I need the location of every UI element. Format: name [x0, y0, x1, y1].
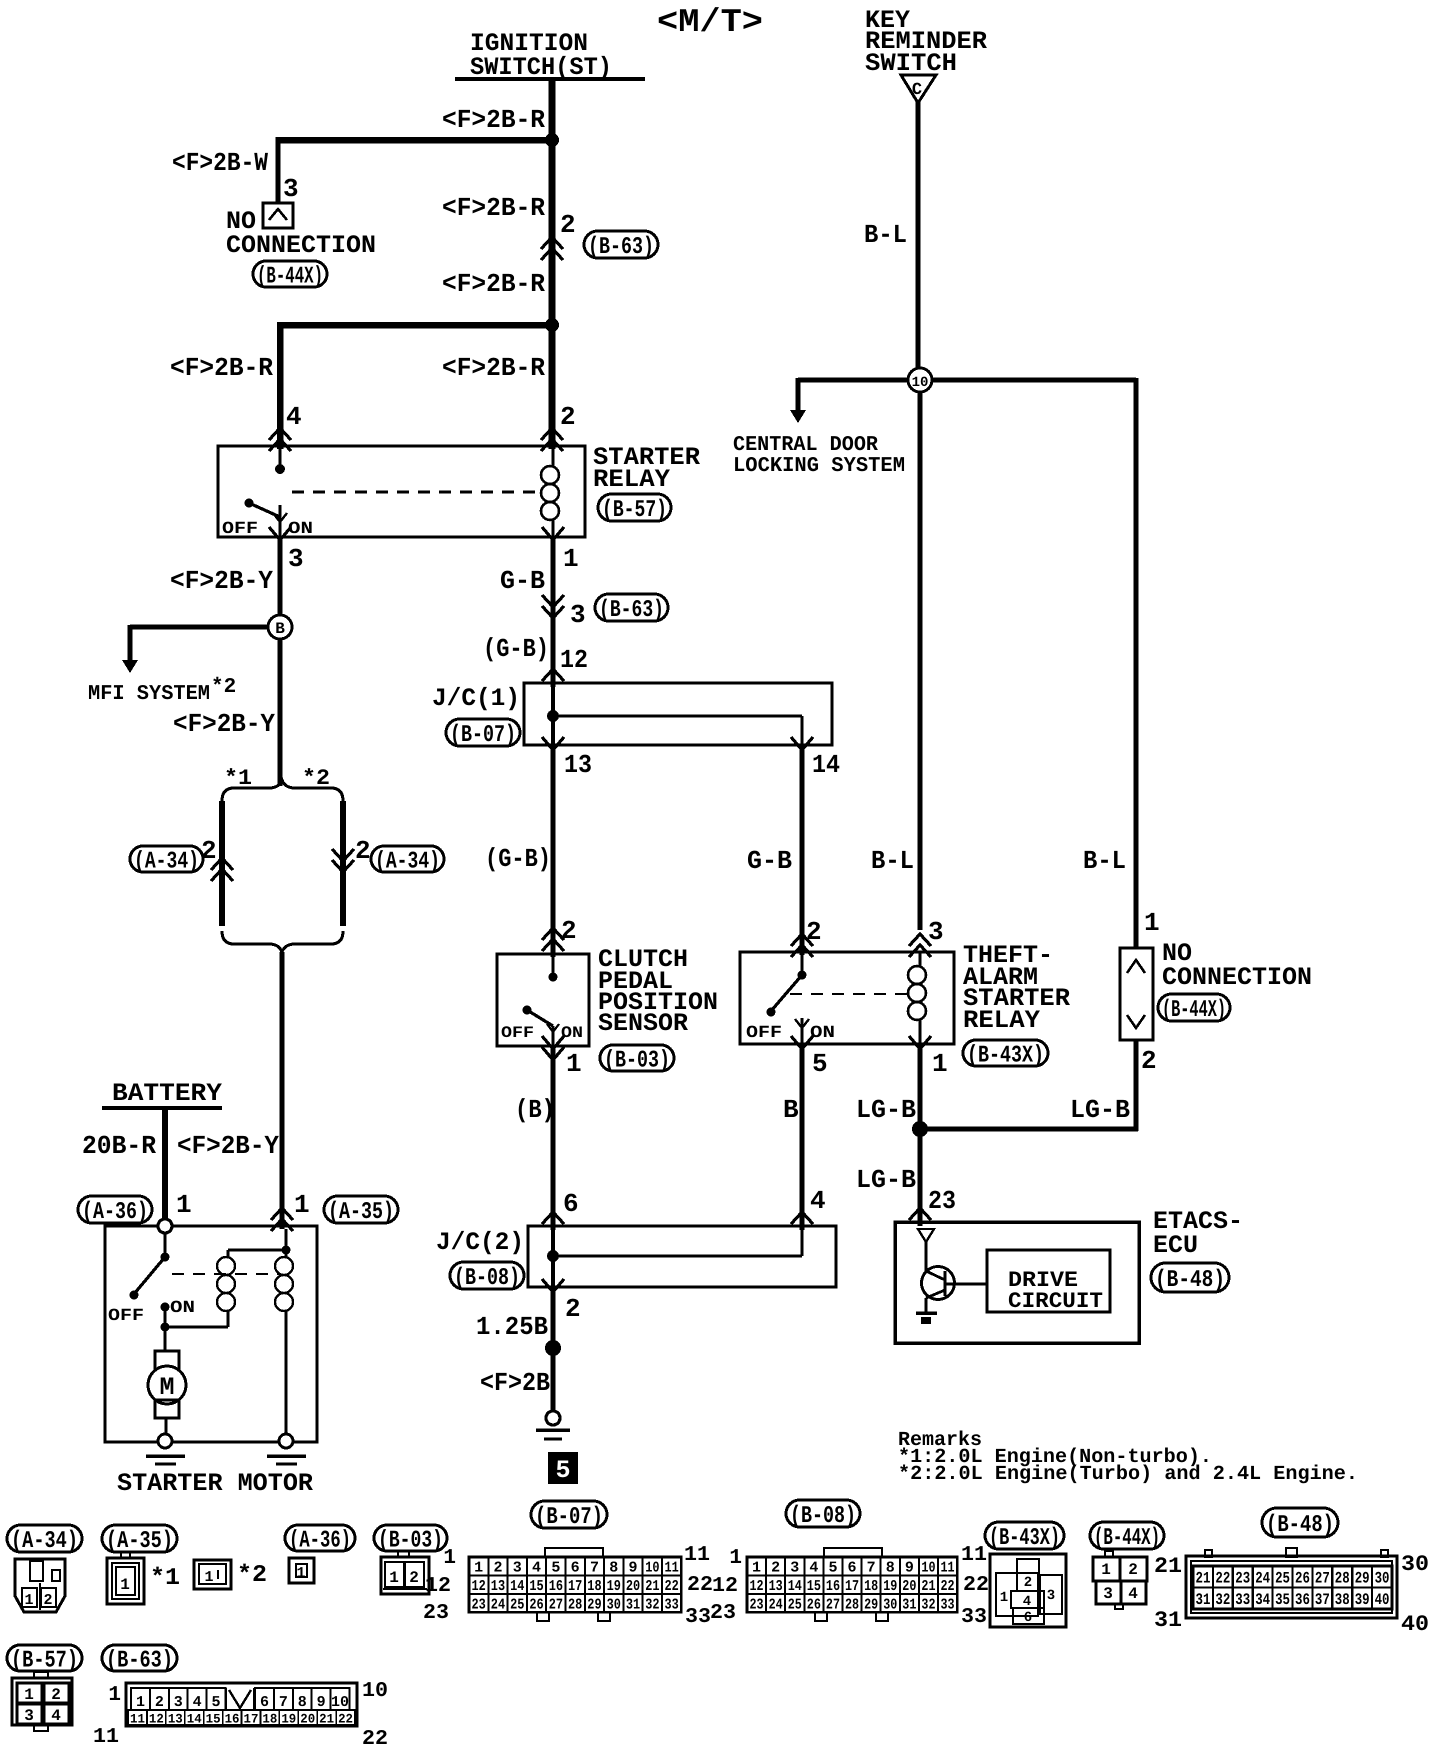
svg-text:31: 31	[626, 1596, 640, 1613]
svg-text:15: 15	[206, 1712, 221, 1727]
connector arrow relay pin 1	[542, 527, 564, 540]
connector arrow J/C1 pin12	[542, 669, 564, 681]
wire transistor to drive circuit	[945, 1283, 987, 1286]
svg-text:M: M	[159, 1373, 174, 1402]
clutch pedal position sensor box	[497, 954, 589, 1046]
svg-text:13: 13	[564, 750, 592, 780]
wire theft pin5 down to J/C2 pin4	[800, 1044, 805, 1230]
svg-text:12: 12	[149, 1712, 164, 1727]
connector arrows clutch pin1	[542, 1036, 564, 1049]
svg-text:18: 18	[587, 1578, 601, 1595]
svg-text:BATTERY: BATTERY	[112, 1079, 222, 1108]
motor brush bottom	[155, 1400, 179, 1418]
svg-text:OFF: OFF	[501, 1024, 534, 1042]
svg-text:ON: ON	[288, 520, 313, 539]
svg-text:22: 22	[687, 1574, 713, 1597]
svg-text:1: 1	[204, 1569, 213, 1586]
svg-text:29: 29	[864, 1596, 878, 1613]
svg-text:13: 13	[491, 1578, 505, 1595]
wire merged branch down to starter motor	[280, 952, 285, 1229]
svg-text:2: 2	[565, 1294, 581, 1324]
node junction main/2B-W	[545, 133, 559, 147]
ground left	[146, 1454, 185, 1458]
svg-text:28: 28	[568, 1596, 582, 1613]
svg-text:(A-34): (A-34)	[375, 849, 440, 876]
svg-text:40: 40	[1401, 1612, 1429, 1637]
svg-text:(B-57): (B-57)	[11, 1648, 78, 1675]
svg-text:*1: *1	[150, 1565, 180, 1592]
svg-text:14: 14	[187, 1712, 202, 1727]
svg-text:4: 4	[193, 1694, 202, 1711]
theft relay dashed link	[790, 993, 908, 995]
svg-text:2: 2	[1128, 1561, 1138, 1579]
svg-text:5: 5	[828, 1560, 837, 1577]
motor ground terminal left	[158, 1434, 172, 1448]
svg-text:12: 12	[425, 1575, 451, 1598]
ignition switch bus bar	[455, 77, 645, 81]
connector *2 pinout drawing	[194, 1560, 231, 1589]
svg-text:LOCKING SYSTEM: LOCKING SYSTEM	[733, 455, 905, 478]
label B-57	[598, 494, 671, 521]
svg-text:33: 33	[941, 1596, 955, 1613]
starter motor box	[105, 1226, 317, 1442]
svg-text:*2: *2	[237, 1562, 267, 1589]
svg-text:18: 18	[262, 1712, 277, 1727]
svg-text:23: 23	[750, 1596, 764, 1613]
connector A-35 pinout drawing	[107, 1558, 144, 1604]
svg-text:5: 5	[812, 1049, 828, 1079]
connector B-44X pinout drawing	[1105, 1551, 1113, 1557]
label A-36 (pinout)	[285, 1525, 355, 1551]
svg-text:20B-R: 20B-R	[82, 1131, 156, 1161]
svg-text:23: 23	[423, 1602, 449, 1625]
svg-text:3: 3	[1103, 1585, 1113, 1603]
label B-63 (pinout)	[102, 1645, 177, 1671]
svg-text:1: 1	[474, 1560, 483, 1577]
svg-text:1: 1	[1101, 1561, 1111, 1579]
svg-text:(B-44X): (B-44X)	[1094, 1525, 1160, 1552]
motor coil 1	[217, 1257, 235, 1275]
ground right	[267, 1454, 306, 1458]
theft relay wiper stub	[801, 1018, 804, 1044]
brace bottom	[222, 931, 343, 952]
svg-text:11: 11	[684, 1544, 710, 1567]
svg-text:21: 21	[645, 1578, 659, 1595]
svg-text:10: 10	[331, 1694, 349, 1711]
label B-44X (pinout)	[1090, 1522, 1164, 1549]
svg-text:6: 6	[571, 1560, 580, 1577]
starter relay box B-57	[218, 446, 585, 537]
svg-text:<F>2B-Y: <F>2B-Y	[173, 709, 275, 739]
J/C(1) inner wire	[551, 683, 555, 745]
svg-text:10: 10	[912, 375, 929, 391]
key reminder connector C triangle	[901, 75, 936, 103]
connector arrows A-35 pin 1	[271, 1208, 293, 1220]
motor M circle	[148, 1366, 186, 1404]
svg-text:36: 36	[1295, 1591, 1310, 1609]
svg-text:2: 2	[1024, 1575, 1032, 1591]
svg-text:26: 26	[529, 1596, 543, 1613]
svg-text:24: 24	[491, 1596, 505, 1613]
svg-text:40: 40	[1375, 1591, 1390, 1609]
svg-text:1: 1	[108, 1684, 121, 1707]
connector arrows A-34 left	[211, 858, 233, 870]
svg-text:30: 30	[883, 1596, 897, 1613]
svg-text:1: 1	[1144, 908, 1160, 938]
label B-03	[600, 1045, 674, 1071]
svg-text:(B-03): (B-03)	[604, 1048, 670, 1075]
brace top	[222, 780, 343, 801]
svg-text:33: 33	[1235, 1591, 1250, 1609]
wire central door drop	[796, 378, 801, 410]
label B-44X (top)	[253, 261, 327, 287]
svg-text:24: 24	[769, 1596, 783, 1613]
svg-text:15: 15	[807, 1578, 821, 1595]
svg-text:1: 1	[752, 1560, 761, 1577]
svg-text:28: 28	[845, 1596, 859, 1613]
svg-text:2: 2	[560, 402, 576, 432]
svg-text:4: 4	[809, 1560, 818, 1577]
connector arrow relay pin 3	[269, 527, 291, 540]
ground terminal circle	[546, 1411, 560, 1425]
svg-text:<F>2B-R: <F>2B-R	[442, 353, 545, 383]
svg-text:33: 33	[961, 1606, 987, 1629]
svg-text:(B-63): (B-63)	[106, 1648, 173, 1675]
svg-text:21: 21	[1154, 1554, 1182, 1579]
connector no-connection B-44X (right)	[1120, 948, 1153, 1040]
svg-text:6: 6	[563, 1189, 579, 1219]
svg-text:4: 4	[286, 402, 302, 432]
svg-text:1: 1	[729, 1547, 742, 1570]
svg-text:13: 13	[769, 1578, 783, 1595]
svg-text:25: 25	[1275, 1570, 1290, 1588]
svg-text:(B-08): (B-08)	[790, 1503, 856, 1530]
svg-text:(G-B): (G-B)	[483, 634, 549, 664]
svg-text:C: C	[912, 81, 922, 100]
svg-text:1: 1	[389, 1569, 399, 1587]
svg-text:29: 29	[1355, 1570, 1370, 1588]
svg-text:13: 13	[168, 1712, 183, 1727]
svg-text:11: 11	[941, 1560, 955, 1577]
svg-text:3: 3	[283, 174, 299, 204]
svg-text:11: 11	[93, 1726, 119, 1746]
svg-text:CIRCUIT: CIRCUIT	[1008, 1289, 1103, 1314]
label B-43X	[963, 1040, 1048, 1066]
wire pin1 down inside motor box	[285, 1229, 288, 1257]
wire branch *1	[219, 801, 225, 926]
node 10 circle	[908, 368, 932, 392]
drive circuit box	[987, 1250, 1110, 1312]
ETACS pin triangle	[918, 1229, 934, 1242]
connector arrows theft pin3	[909, 934, 931, 946]
wire LG-B horizontal	[918, 1127, 1138, 1132]
connector arrow J/C2 pin2	[542, 1279, 564, 1292]
svg-text:(B-03): (B-03)	[378, 1528, 443, 1555]
svg-text:(A-35): (A-35)	[328, 1199, 394, 1226]
svg-text:(G-B): (G-B)	[485, 844, 551, 874]
label A-35	[324, 1196, 398, 1223]
label B-08 (pinout)	[786, 1500, 860, 1527]
svg-text:<F>2B-R: <F>2B-R	[442, 193, 545, 223]
svg-text:3: 3	[174, 1694, 183, 1711]
svg-text:1: 1	[932, 1049, 948, 1079]
svg-text:10: 10	[645, 1560, 659, 1577]
svg-text:21: 21	[319, 1712, 334, 1727]
svg-text:14: 14	[788, 1578, 802, 1595]
transistor internals	[926, 1271, 945, 1298]
wire NC down to LG-B junction	[1134, 1040, 1139, 1131]
svg-text:21: 21	[921, 1578, 935, 1595]
svg-text:4: 4	[1023, 1594, 1031, 1610]
svg-text:10: 10	[362, 1680, 388, 1703]
ETACS internal ground	[925, 1298, 928, 1312]
svg-text:28: 28	[1335, 1570, 1350, 1588]
svg-text:22: 22	[963, 1574, 989, 1597]
svg-text:2: 2	[43, 1592, 52, 1609]
svg-text:2: 2	[560, 210, 576, 240]
svg-text:(A-35): (A-35)	[106, 1528, 173, 1555]
theft relay contact dot	[801, 952, 804, 971]
svg-text:MFI SYSTEM: MFI SYSTEM	[88, 683, 210, 706]
svg-text:G-B: G-B	[747, 846, 792, 876]
connector arrow ETACS pin23	[909, 1208, 931, 1220]
starter relay switch arm	[249, 503, 280, 517]
node junction main/left branch	[545, 318, 559, 332]
connector B-57 pinout drawing	[12, 1678, 72, 1725]
svg-text:<F>2B-Y: <F>2B-Y	[170, 566, 273, 596]
svg-text:20: 20	[300, 1712, 315, 1727]
label B-08 (at J/C2)	[450, 1262, 524, 1289]
svg-text:CENTRAL DOOR: CENTRAL DOOR	[733, 434, 878, 457]
svg-text:27: 27	[1315, 1570, 1330, 1588]
wire left branch to relay pin4	[277, 322, 284, 449]
svg-text:J/C(2): J/C(2)	[436, 1228, 524, 1257]
wire branch *2	[340, 801, 346, 926]
wire J/C1 pin14 down	[800, 745, 805, 955]
svg-text:27: 27	[549, 1596, 563, 1613]
svg-text:25: 25	[510, 1596, 524, 1613]
svg-text:19: 19	[281, 1712, 296, 1727]
svg-text:11: 11	[665, 1560, 679, 1577]
svg-text:1.25B: 1.25B	[476, 1312, 548, 1342]
node LG-B junction	[912, 1121, 928, 1137]
connector arrow J/C1 pin13	[542, 737, 564, 750]
motor ON contact	[161, 1303, 170, 1312]
label B-03 (pinout)	[374, 1525, 447, 1551]
svg-text:1: 1	[176, 1190, 192, 1220]
theft-alarm starter relay box	[740, 952, 954, 1044]
svg-text:5: 5	[551, 1560, 560, 1577]
svg-text:30: 30	[1401, 1552, 1429, 1577]
label B-07 (at J/C1)	[446, 719, 520, 746]
svg-text:(A-36): (A-36)	[82, 1199, 148, 1226]
connector A-34 pinout drawing	[15, 1559, 65, 1612]
starter relay dashed link	[292, 491, 540, 494]
svg-text:27: 27	[826, 1596, 840, 1613]
svg-text:4: 4	[532, 1560, 541, 1577]
svg-text:(B-07): (B-07)	[535, 1504, 603, 1531]
battery terminal circle A-36 pin1	[158, 1219, 172, 1233]
svg-text:J/C(1): J/C(1)	[432, 684, 520, 713]
svg-text:12: 12	[472, 1578, 486, 1595]
svg-text:OFF: OFF	[222, 520, 258, 539]
svg-text:2: 2	[1141, 1046, 1157, 1076]
motor brush top	[155, 1351, 179, 1369]
svg-text:3: 3	[790, 1560, 799, 1577]
svg-text:16: 16	[549, 1578, 563, 1595]
connector arrows clutch pin2	[542, 928, 564, 940]
svg-text:1: 1	[443, 1547, 456, 1570]
svg-text:LG-B: LG-B	[1070, 1095, 1130, 1125]
svg-text:<F>2B-R: <F>2B-R	[442, 269, 545, 299]
svg-text:<F>2B: <F>2B	[480, 1368, 550, 1398]
connector arrow J/C2 pin6	[542, 1212, 564, 1224]
node ground splice	[545, 1340, 561, 1356]
ETACS wire to transistor	[925, 1242, 928, 1271]
svg-text:39: 39	[1355, 1591, 1370, 1609]
svg-text:(B-07): (B-07)	[450, 722, 516, 749]
svg-text:(B): (B)	[515, 1095, 555, 1125]
svg-text:22: 22	[1215, 1570, 1230, 1588]
wire battery down	[162, 1108, 168, 1219]
svg-text:2: 2	[51, 1686, 61, 1704]
svg-text:1: 1	[24, 1592, 33, 1609]
svg-text:(B-57): (B-57)	[602, 497, 667, 524]
label A-34 left	[130, 846, 203, 872]
svg-text:23: 23	[472, 1596, 486, 1613]
svg-text:<F>2B-R: <F>2B-R	[170, 353, 273, 383]
ground symbol	[536, 1428, 570, 1432]
clutch sensor contact dot	[552, 954, 555, 973]
svg-text:31: 31	[1196, 1591, 1211, 1609]
svg-text:22: 22	[362, 1728, 388, 1746]
clutch sensor arm	[527, 1010, 553, 1026]
svg-text:30: 30	[1375, 1570, 1390, 1588]
wire right B-L vertical	[1134, 378, 1139, 948]
label A-36	[78, 1196, 152, 1223]
wire 2B-W horizontal	[278, 137, 555, 144]
connector arrow J/C1 pin14	[791, 737, 813, 750]
svg-text:2: 2	[493, 1560, 502, 1577]
theft relay coil	[919, 952, 922, 966]
label A-34 right	[371, 846, 444, 872]
svg-text:26: 26	[807, 1596, 821, 1613]
wire horizontal to relay branch	[278, 322, 555, 329]
svg-text:1: 1	[563, 544, 579, 574]
connector B-43X pinout drawing	[990, 1554, 1066, 1627]
wire clutch pin1 down to J/C2	[551, 1046, 556, 1230]
svg-text:20: 20	[626, 1578, 640, 1595]
svg-text:8: 8	[609, 1560, 618, 1577]
connector B-63 pinout grid	[126, 1683, 357, 1726]
connector A-36 pinout drawing	[289, 1558, 314, 1583]
svg-text:7: 7	[279, 1694, 288, 1711]
svg-text:1: 1	[120, 1576, 130, 1594]
svg-text:37: 37	[1315, 1591, 1330, 1609]
svg-text:4: 4	[51, 1707, 61, 1725]
svg-text:(A-34): (A-34)	[11, 1528, 78, 1555]
svg-text:32: 32	[645, 1596, 659, 1613]
svg-text:18: 18	[864, 1578, 878, 1595]
svg-text:33: 33	[665, 1596, 679, 1613]
svg-text:3: 3	[928, 917, 944, 947]
motor node to coils	[161, 1323, 170, 1332]
svg-text:(B-48): (B-48)	[1266, 1512, 1334, 1539]
svg-text:34: 34	[1255, 1591, 1270, 1609]
svg-text:8: 8	[886, 1560, 895, 1577]
svg-text:1: 1	[1000, 1590, 1008, 1606]
svg-text:SENSOR: SENSOR	[598, 1009, 688, 1038]
svg-text:25: 25	[788, 1596, 802, 1613]
svg-text:38: 38	[1335, 1591, 1350, 1609]
motor switch dashed link	[172, 1273, 280, 1275]
transistor circle	[922, 1267, 955, 1300]
svg-text:24: 24	[1255, 1570, 1270, 1588]
junction connector J/C(2) box	[528, 1226, 836, 1287]
svg-text:B: B	[783, 1095, 799, 1125]
wire relay pin3 down	[278, 537, 283, 786]
svg-text:9: 9	[629, 1560, 638, 1577]
svg-text:1: 1	[294, 1190, 310, 1220]
svg-text:3: 3	[1047, 1588, 1055, 1604]
svg-text:(B-44X): (B-44X)	[1162, 997, 1226, 1024]
svg-text:(A-36): (A-36)	[289, 1528, 351, 1555]
svg-text:(B-08): (B-08)	[454, 1265, 520, 1292]
svg-text:*2:2.0L Engine(Turbo) and 2.4L: *2:2.0L Engine(Turbo) and 2.4L Engine.	[898, 1463, 1358, 1486]
svg-text:21: 21	[1196, 1570, 1211, 1588]
label B-48 (pinout)	[1262, 1508, 1338, 1537]
svg-text:14: 14	[510, 1578, 524, 1595]
label B-07 (pinout)	[531, 1501, 607, 1528]
svg-text:ON: ON	[561, 1024, 583, 1042]
svg-text:(B-63): (B-63)	[588, 234, 654, 261]
svg-text:22: 22	[338, 1712, 353, 1727]
arrow to MFI system	[122, 660, 138, 673]
wire J/C1 pin13 down	[551, 745, 556, 957]
svg-text:11: 11	[130, 1712, 145, 1727]
svg-text:26: 26	[1295, 1570, 1310, 1588]
svg-text:2: 2	[771, 1560, 780, 1577]
svg-text:7: 7	[590, 1560, 599, 1577]
svg-text:16: 16	[225, 1712, 240, 1727]
svg-text:10: 10	[921, 1560, 935, 1577]
svg-text:<F>2B-W: <F>2B-W	[172, 148, 268, 178]
motor coil 2	[275, 1257, 293, 1275]
svg-text:ON: ON	[810, 1024, 835, 1043]
svg-text:5: 5	[212, 1694, 221, 1711]
wire key reminder to theft relay	[918, 380, 923, 930]
svg-text:ON: ON	[170, 1299, 195, 1318]
wire central door horizontal	[798, 378, 1136, 383]
wire relay pin1 down	[551, 537, 556, 687]
clutch sensor wiper stub	[552, 1026, 555, 1046]
svg-text:17: 17	[845, 1578, 859, 1595]
svg-text:3: 3	[513, 1560, 522, 1577]
wire J/C2 pin2 down	[551, 1287, 556, 1412]
wire 2B-W drop to no-connection	[276, 137, 281, 203]
wire key reminder down	[916, 100, 921, 380]
starter relay contact dot	[279, 446, 282, 466]
svg-text:29: 29	[587, 1596, 601, 1613]
svg-text:23: 23	[928, 1186, 956, 1216]
svg-text:23: 23	[1235, 1570, 1250, 1588]
svg-text:17: 17	[568, 1578, 582, 1595]
svg-text:31: 31	[1154, 1608, 1182, 1633]
connector mark B-63 pin2 on main	[541, 237, 563, 249]
label B-57 (pinout)	[7, 1645, 82, 1671]
connector B-48 pinout drawing	[1186, 1556, 1397, 1618]
svg-text:20: 20	[902, 1578, 916, 1595]
